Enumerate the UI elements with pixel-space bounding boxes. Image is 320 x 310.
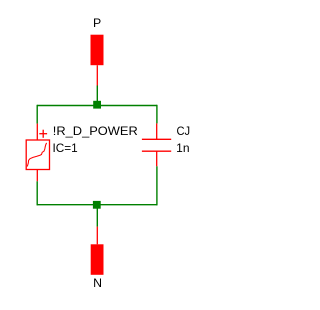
capacitor CJ top lead <box>156 123 158 139</box>
junction bottom node <box>93 201 101 209</box>
wire bottom node to port N <box>96 205 98 227</box>
nonlinear resistor R_D_POWER bottom lead <box>36 170 38 182</box>
junction top node <box>93 101 101 109</box>
wire port P to top node <box>96 86 98 106</box>
wire right vertical lower <box>156 166 158 205</box>
port N lead <box>96 227 98 245</box>
svg-text:IC=1: IC=1 <box>53 141 78 155</box>
port N symbol <box>91 244 104 274</box>
nonlinear resistor R_D_POWER curve <box>27 143 46 167</box>
wire right vertical upper <box>156 105 158 124</box>
port P symbol <box>91 35 104 65</box>
wire left vertical upper <box>36 105 38 124</box>
svg-text:CJ: CJ <box>177 124 191 138</box>
svg-text:!R_D_POWER: !R_D_POWER <box>53 124 138 138</box>
wire left vertical lower <box>36 181 38 205</box>
nonlinear resistor R_D_POWER plus sign <box>39 130 47 138</box>
wire bottom horizontal <box>37 204 157 206</box>
svg-text:N: N <box>93 276 102 290</box>
svg-text:P: P <box>93 16 101 30</box>
nonlinear resistor R_D_POWER body <box>26 140 49 170</box>
capacitor CJ bottom lead <box>156 151 158 166</box>
capacitor CJ top plate <box>142 138 171 140</box>
port P lead <box>96 65 98 85</box>
nonlinear resistor R_D_POWER top lead <box>36 124 38 140</box>
wire top horizontal <box>37 105 157 107</box>
svg-text:1n: 1n <box>176 141 189 155</box>
capacitor CJ bottom plate <box>142 150 171 152</box>
